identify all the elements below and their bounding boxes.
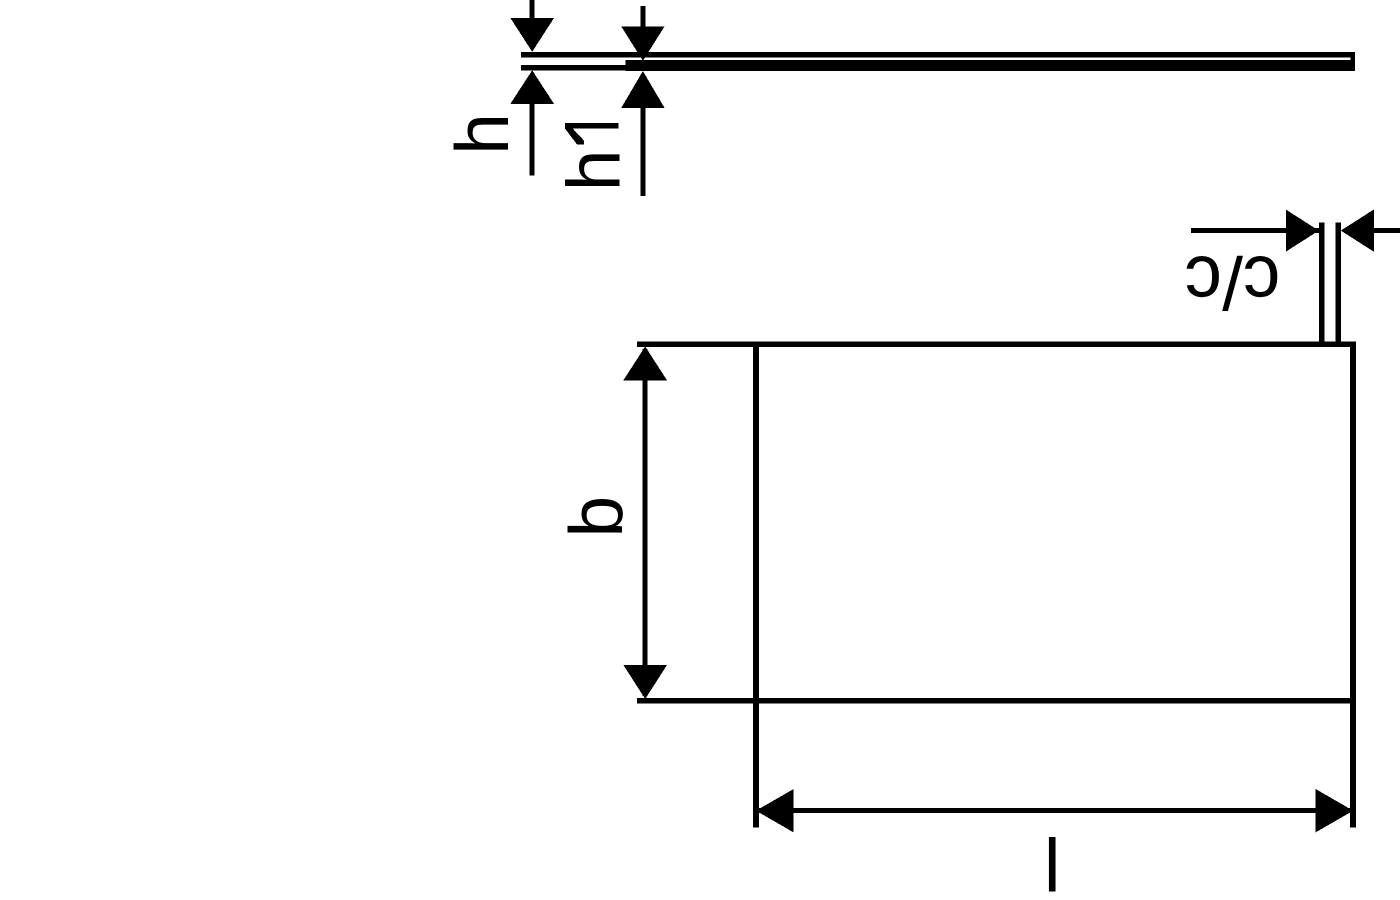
dimension h1 lower stem <box>640 108 645 196</box>
dimension c/c right arrowhead <box>1341 210 1374 252</box>
terminal tab right line <box>1335 223 1341 342</box>
dimension h1 upper stem <box>640 6 645 27</box>
dimension h1 down arrowhead <box>621 26 664 60</box>
dimension l left arrowhead <box>756 789 794 832</box>
svg-text:h: h <box>440 113 524 155</box>
side view: right end cap <box>1351 52 1356 71</box>
dimension h1 up arrowhead <box>621 71 664 108</box>
label h1 digit 1 stem (rotated) <box>565 123 619 129</box>
dimension c/c right tail line <box>1373 228 1400 233</box>
dimension c/c left arrowhead <box>1286 210 1319 252</box>
dimension h lower stem <box>530 104 535 176</box>
label h1 digit 1 flag (rotated) <box>565 128 584 144</box>
front view rectangle bottom edge with b extension line <box>637 698 1356 704</box>
dimension b top arrowhead <box>623 347 667 381</box>
front view rectangle top edge with b extension line <box>637 341 1356 347</box>
front view rectangle right edge with l extension line <box>1350 341 1356 827</box>
svg-text:h: h <box>552 149 636 191</box>
dimension h up arrowhead <box>510 70 554 104</box>
side view: thick body bottom bar <box>626 60 1356 71</box>
dimension l line <box>756 808 1353 813</box>
dimension c/c left line <box>1191 228 1319 233</box>
side view: blade top surface line <box>521 52 1355 58</box>
dimension h upper stem <box>530 0 535 19</box>
svg-text:c/c: c/c <box>1185 241 1281 325</box>
dimension b line <box>643 349 648 696</box>
dimension h down arrowhead <box>510 18 554 52</box>
front view rectangle left edge with l extension line <box>753 341 759 827</box>
terminal tab left line <box>1319 223 1325 342</box>
svg-text:l: l <box>1044 824 1061 900</box>
side view: thin tip bottom line <box>521 65 626 70</box>
svg-text:b: b <box>554 496 638 538</box>
dimension b bottom arrowhead <box>623 665 667 699</box>
dimension l right arrowhead <box>1316 789 1354 832</box>
